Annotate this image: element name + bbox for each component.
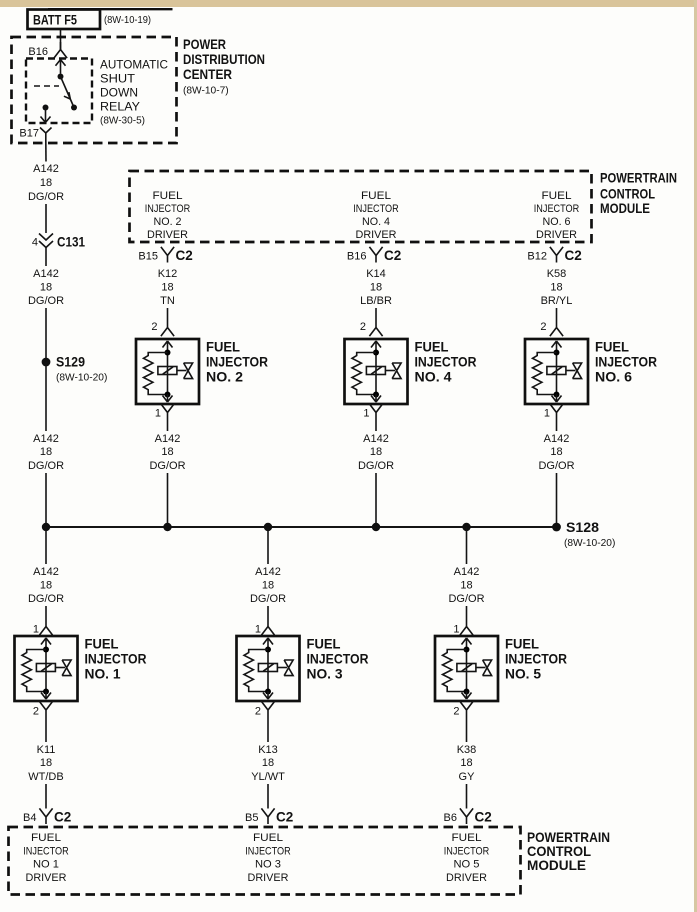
pin 1 connector at injector NO. 3 [255,619,275,636]
svg-text:DRIVER: DRIVER [446,872,487,884]
svg-text:B17: B17 [19,128,39,140]
svg-text:LB/BR: LB/BR [360,295,392,307]
powertrain control module dashed box (top) [130,171,592,242]
svg-text:NO. 3: NO. 3 [307,667,343,682]
svg-text:FUEL: FUEL [542,190,572,202]
svg-text:C2: C2 [565,248,582,263]
fuel injector NO. 3 component [237,636,300,701]
pin 2 connector at injector NO. 3 [255,701,275,717]
svg-text:DG/OR: DG/OR [28,460,64,472]
svg-text:B6: B6 [444,812,457,824]
svg-text:A142: A142 [33,163,59,175]
powertrain control module dashed box (bottom) [9,827,521,895]
svg-text:POWERTRAIN: POWERTRAIN [600,170,677,186]
label (8W-10-19) [104,15,151,26]
wire bus down to injector NO. 1 [45,527,47,564]
wire to injector NO. 1 [45,606,47,619]
wire to splice bus [375,473,377,527]
pin B17 label [19,128,39,140]
svg-text:NO. 5: NO. 5 [505,667,541,682]
svg-text:C2: C2 [384,248,401,263]
svg-text:A142: A142 [255,566,281,578]
wire label K13 18 YL/WT [251,744,285,783]
wire label A142 18 DG/OR [250,566,286,605]
label POWERTRAIN CONTROL MODULE (top) [600,170,677,216]
svg-text:DG/OR: DG/OR [28,191,64,203]
wire to PCM B4 [45,784,47,809]
svg-text:NO. 2: NO. 2 [206,370,243,385]
svg-text:K14: K14 [366,268,386,280]
wire injector NO. 6 down [556,420,558,432]
wire to splice bus [167,473,169,527]
wire label A142 18 DG/OR [28,433,64,472]
wire below C131 [45,248,47,267]
svg-text:INJECTOR: INJECTOR [505,652,567,667]
relay coil actuation dashed line [34,85,59,87]
svg-text:YL/WT: YL/WT [251,771,285,783]
svg-text:BR/YL: BR/YL [541,295,573,307]
connector B5 C2 [245,808,293,824]
automatic shut down relay dashed box [26,59,92,124]
bus junction node x=167.5 [163,523,171,531]
wire label A142 18 DG/OR [358,433,394,472]
driver label FUEL INJECTOR NO. 2 DRIVER [145,190,191,241]
svg-text:NO. 4: NO. 4 [415,370,453,385]
wire to PCM B6 [466,784,468,809]
scan artifact line top [48,8,173,10]
svg-text:DRIVER: DRIVER [248,872,289,884]
wire injector NO. 1 down [45,717,47,742]
svg-text:18: 18 [40,177,52,189]
wire label A142 18 DG/OR [28,268,64,307]
pin 2 connector at injector NO. 6 [540,320,563,336]
svg-text:18: 18 [460,757,472,769]
connector B16 female half [54,42,67,58]
wire injector NO. 3 down [267,717,269,742]
svg-text:(8W-10-20): (8W-10-20) [564,538,615,549]
wire label K11 18 WT/DB [28,744,63,783]
svg-text:C2: C2 [176,248,193,263]
driver label FUEL INJECTOR NO. 6 DRIVER [534,190,580,241]
fuel injector NO. 1 component [15,636,78,701]
svg-text:INJECTOR: INJECTOR [206,355,268,370]
svg-text:DG/OR: DG/OR [250,593,286,605]
svg-text:S129: S129 [56,353,85,369]
svg-text:1: 1 [453,624,459,636]
bus junction node x=376 [372,523,380,531]
svg-text:18: 18 [40,446,52,458]
wire label A142 18 DG/OR [448,566,484,605]
label FUEL INJECTOR NO. 1 [85,637,147,682]
svg-text:2: 2 [453,706,459,718]
svg-text:INJECTOR: INJECTOR [85,652,147,667]
svg-text:1: 1 [33,624,39,636]
svg-text:A142: A142 [544,433,570,445]
connector B17 male pin out of relay [41,108,51,123]
svg-text:B15: B15 [138,251,158,263]
svg-text:2: 2 [33,706,39,718]
fuel injector NO. 5 component [435,636,498,701]
svg-text:2: 2 [360,321,366,333]
bus junction node x=466.5 [462,523,470,531]
svg-text:DRIVER: DRIVER [356,229,397,241]
svg-text:C2: C2 [54,810,71,825]
svg-text:K38: K38 [457,744,477,756]
svg-text:NO. 6: NO. 6 [595,370,633,385]
svg-text:B4: B4 [23,812,36,824]
svg-text:K12: K12 [158,268,178,280]
svg-text:DOWN: DOWN [100,88,138,100]
svg-text:DG/OR: DG/OR [28,295,64,307]
wire bus down to injector NO. 5 [466,527,468,564]
svg-text:INJECTOR: INJECTOR [595,355,657,370]
svg-text:18: 18 [550,282,562,294]
pin 1 connector at injector NO. 2 [155,404,174,420]
label FUEL INJECTOR NO. 6 [595,340,657,385]
svg-text:INJECTOR: INJECTOR [415,355,477,370]
wire to injector NO. 5 [466,606,468,619]
svg-text:B16: B16 [347,251,367,263]
wire to splice bus [556,473,558,527]
svg-text:INJECTOR: INJECTOR [145,203,191,215]
svg-text:WT/DB: WT/DB [28,771,63,783]
wire injector NO. 2 down [167,420,169,432]
wire label K14 18 LB/BR [360,268,392,307]
svg-text:K11: K11 [37,744,56,756]
svg-text:NO. 1: NO. 1 [85,667,121,682]
svg-text:18: 18 [370,282,382,294]
driver label FUEL INJECTOR NO 1 DRIVER [23,832,69,884]
svg-text:1: 1 [255,624,261,636]
relay switch blade with arrowhead [61,77,78,111]
pin 1 connector at injector NO. 6 [544,404,563,420]
wire label A142 18 DG/OR [28,566,64,605]
svg-text:B12: B12 [527,251,547,263]
svg-text:FUEL: FUEL [153,190,183,202]
svg-text:DRIVER: DRIVER [536,229,577,241]
label POWER DISTRIBUTION CENTER [183,36,265,97]
svg-text:DG/OR: DG/OR [28,593,64,605]
label FUEL INJECTOR NO. 3 [307,637,369,682]
bus junction node x=46 [42,523,50,531]
svg-text:DRIVER: DRIVER [147,229,188,241]
svg-text:AUTOMATIC: AUTOMATIC [100,60,168,72]
pin 2 connector at injector NO. 1 [33,701,53,717]
svg-text:18: 18 [40,580,52,592]
svg-text:INJECTOR: INJECTOR [245,845,291,857]
svg-text:DRIVER: DRIVER [26,872,67,884]
svg-text:B5: B5 [245,812,258,824]
fuse BATT F5 box [28,10,101,30]
svg-text:18: 18 [550,446,562,458]
wire label K38 18 GY [457,744,477,783]
svg-text:NO 1: NO 1 [33,858,59,870]
svg-text:A142: A142 [33,566,59,578]
svg-text:NO. 6: NO. 6 [543,216,571,228]
svg-text:DG/OR: DG/OR [448,593,484,605]
wire BATT F5 to ASD relay [60,29,62,50]
svg-text:K58: K58 [547,268,567,280]
svg-text:4: 4 [32,237,38,249]
wire label A142 18 DG/OR [28,163,64,203]
svg-text:POWER: POWER [183,36,226,52]
svg-text:INJECTOR: INJECTOR [353,203,399,215]
fuel injector NO. 2 component [136,339,199,404]
svg-text:RELAY: RELAY [100,102,140,114]
svg-text:(8W-10-20): (8W-10-20) [56,373,107,384]
connector B16 C2 [347,247,401,263]
svg-text:C131: C131 [57,233,85,249]
svg-text:MODULE: MODULE [527,857,586,873]
power distribution center dashed box [12,37,177,143]
connector B17 female half [40,128,52,141]
svg-text:CENTER: CENTER [183,66,232,82]
wire K58 down to injector [556,308,558,320]
driver label FUEL INJECTOR NO 5 DRIVER [444,832,490,884]
wire label A142 18 DG/OR [538,433,574,472]
wire label K12 18 TN [158,268,178,307]
wire to C131 [45,204,47,233]
svg-text:S128: S128 [566,519,599,535]
wire bus down to injector NO. 3 [267,527,269,564]
svg-text:18: 18 [40,757,52,769]
svg-text:MODULE: MODULE [600,200,650,216]
svg-text:FUEL: FUEL [307,637,341,652]
wire to injector NO. 3 [267,606,269,619]
svg-text:1: 1 [363,408,369,420]
svg-text:INJECTOR: INJECTOR [307,652,369,667]
svg-text:K13: K13 [258,744,278,756]
splice S129 [42,353,108,383]
svg-text:A142: A142 [33,268,59,280]
svg-text:INJECTOR: INJECTOR [23,845,69,857]
pin 1 connector at injector NO. 4 [363,404,382,420]
svg-text:2: 2 [255,706,261,718]
svg-text:BATT F5: BATT F5 [33,11,77,27]
bus junction node x=268 [264,523,272,531]
label POWERTRAIN CONTROL MODULE (bottom) [527,829,610,873]
svg-text:FUEL: FUEL [415,340,449,355]
connector B15 C2 [138,247,192,263]
svg-text:1: 1 [544,408,550,420]
svg-text:A142: A142 [155,433,181,445]
svg-text:18: 18 [460,580,472,592]
pin B16 label [28,46,48,58]
connector B12 C2 [527,247,581,263]
scan edge top bar [0,0,697,7]
wire K12 down to injector [167,308,169,320]
svg-text:18: 18 [370,446,382,458]
svg-text:2: 2 [151,321,157,333]
svg-text:FUEL: FUEL [361,190,391,202]
svg-text:DG/OR: DG/OR [358,460,394,472]
wire to S129 [45,308,47,362]
pin 1 connector at injector NO. 5 [453,619,473,636]
svg-text:FUEL: FUEL [253,832,283,844]
wire to splice bus [45,473,47,527]
wire injector NO. 5 down [466,717,468,742]
wire B17 down [45,140,47,162]
svg-text:NO 3: NO 3 [255,858,281,870]
label FUEL INJECTOR NO. 2 [206,340,268,385]
svg-text:FUEL: FUEL [206,340,240,355]
label AUTOMATIC SHUT DOWN RELAY [100,60,168,127]
splice S128 [552,519,615,549]
pin 1 connector at injector NO. 1 [33,619,53,636]
svg-text:A142: A142 [33,433,59,445]
svg-text:18: 18 [40,282,52,294]
svg-text:FUEL: FUEL [85,637,119,652]
svg-text:B16: B16 [28,46,48,58]
wire S129 down [45,362,47,431]
svg-text:FUEL: FUEL [505,637,539,652]
pin 2 connector at injector NO. 4 [360,320,383,336]
wire K14 down to injector [375,308,377,320]
wire to PCM B5 [267,784,269,809]
wire label A142 18 DG/OR [149,433,185,472]
svg-text:INJECTOR: INJECTOR [444,845,490,857]
relay pivot node [58,74,64,80]
svg-text:18: 18 [161,282,173,294]
svg-text:FUEL: FUEL [595,340,629,355]
svg-text:DG/OR: DG/OR [538,460,574,472]
svg-text:1: 1 [155,408,161,420]
svg-text:(8W-30-5): (8W-30-5) [100,116,145,127]
svg-text:A142: A142 [454,566,480,578]
connector B16 male pin into relay [56,60,66,74]
relay output contact node [43,105,49,111]
svg-text:NO 5: NO 5 [454,858,480,870]
svg-text:FUEL: FUEL [31,832,61,844]
svg-text:GY: GY [459,771,476,783]
svg-text:2: 2 [540,321,546,333]
connector B6 C2 [444,808,492,824]
svg-text:(8W-10-7): (8W-10-7) [183,85,229,96]
svg-text:A142: A142 [363,433,389,445]
svg-text:INJECTOR: INJECTOR [534,203,580,215]
svg-text:SHUT: SHUT [100,74,135,86]
svg-text:18: 18 [262,580,274,592]
svg-text:TN: TN [160,295,175,307]
svg-text:NO. 2: NO. 2 [154,216,182,228]
fuel injector NO. 4 component [345,339,408,404]
wire injector NO. 4 down [375,420,377,432]
scan edge right strip [694,0,697,912]
svg-text:18: 18 [161,446,173,458]
wire label K58 18 BR/YL [541,268,573,307]
svg-text:NO. 4: NO. 4 [362,216,390,228]
svg-text:C2: C2 [475,810,492,825]
connector C131 [32,233,85,249]
pin 2 connector at injector NO. 5 [453,701,473,717]
svg-text:18: 18 [262,757,274,769]
label FUEL INJECTOR NO. 4 [415,340,477,385]
svg-text:C2: C2 [276,810,293,825]
connector B4 C2 [23,808,71,824]
svg-text:FUEL: FUEL [452,832,482,844]
driver label FUEL INJECTOR NO 3 DRIVER [245,832,291,884]
svg-text:DISTRIBUTION: DISTRIBUTION [183,51,265,67]
svg-text:DG/OR: DG/OR [149,460,185,472]
driver label FUEL INJECTOR NO. 4 DRIVER [353,190,399,241]
label FUEL INJECTOR NO. 5 [505,637,567,682]
svg-text:(8W-10-19): (8W-10-19) [104,15,151,26]
pin 2 connector at injector NO. 2 [151,320,174,336]
fuel injector NO. 6 component [525,339,588,404]
splice bus wire S128 [46,526,557,528]
